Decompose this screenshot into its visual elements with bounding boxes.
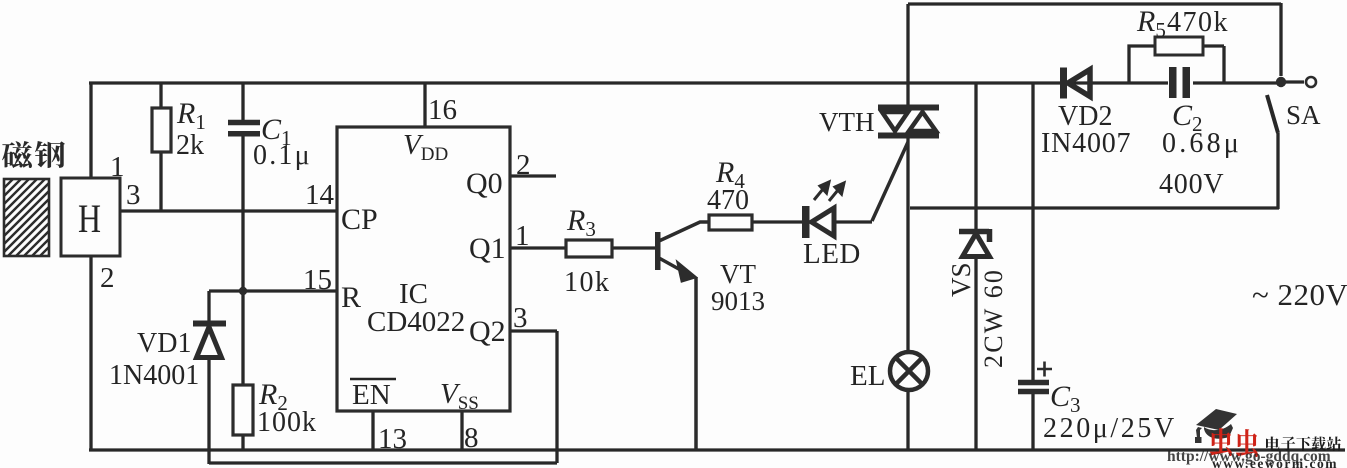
svg-text:9013: 9013 <box>711 286 765 316</box>
svg-text:1N4001: 1N4001 <box>109 360 199 391</box>
svg-text:EL: EL <box>850 360 885 392</box>
svg-text:8: 8 <box>464 422 479 454</box>
svg-text:IN4007: IN4007 <box>1041 128 1131 159</box>
svg-text:220μ/25V: 220μ/25V <box>1043 413 1177 444</box>
svg-text:VTH: VTH <box>819 107 875 137</box>
svg-text:R1: R1 <box>176 97 206 134</box>
svg-text:1: 1 <box>110 151 125 183</box>
svg-text:2k: 2k <box>176 130 204 161</box>
svg-text:0.1μ: 0.1μ <box>253 140 312 171</box>
svg-text:SA: SA <box>1286 100 1321 130</box>
svg-text:2: 2 <box>516 149 531 181</box>
svg-text:C3: C3 <box>1050 380 1081 417</box>
svg-text:Q2: Q2 <box>469 315 506 348</box>
svg-text:Q1: Q1 <box>469 232 506 265</box>
svg-text:VS: VS <box>946 262 976 297</box>
svg-text:R: R <box>341 281 361 314</box>
svg-text:400V: 400V <box>1159 169 1224 200</box>
svg-text:13: 13 <box>378 423 407 455</box>
svg-text:2: 2 <box>100 262 115 294</box>
svg-text:3: 3 <box>126 179 141 211</box>
svg-text:VDD: VDD <box>403 129 448 165</box>
svg-text:10k: 10k <box>564 267 611 298</box>
svg-text:470k: 470k <box>1167 7 1229 38</box>
svg-text:www.eeworm.com: www.eeworm.com <box>1212 456 1338 468</box>
svg-text:~ 220V: ~ 220V <box>1252 277 1347 312</box>
svg-text:0.68μ: 0.68μ <box>1162 128 1242 159</box>
svg-text:15: 15 <box>303 264 332 296</box>
svg-text:EN: EN <box>352 379 391 411</box>
svg-text:Q0: Q0 <box>466 167 503 200</box>
svg-text:100k: 100k <box>257 407 317 438</box>
svg-text:CD4022: CD4022 <box>367 306 465 338</box>
svg-text:VSS: VSS <box>440 378 479 414</box>
svg-text:470: 470 <box>707 185 749 216</box>
svg-text:R5: R5 <box>1136 5 1166 42</box>
svg-text:16: 16 <box>428 94 457 126</box>
svg-text:H: H <box>78 196 101 241</box>
svg-text:VT: VT <box>720 259 756 289</box>
svg-text:LED: LED <box>803 238 861 270</box>
svg-text:CP: CP <box>341 203 378 236</box>
svg-text:VD1: VD1 <box>137 328 191 359</box>
svg-text:1: 1 <box>515 220 530 252</box>
svg-text:3: 3 <box>513 302 528 334</box>
svg-text:R3: R3 <box>566 204 596 241</box>
svg-text:2CW 60: 2CW 60 <box>979 268 1008 368</box>
svg-text:14: 14 <box>305 179 335 211</box>
